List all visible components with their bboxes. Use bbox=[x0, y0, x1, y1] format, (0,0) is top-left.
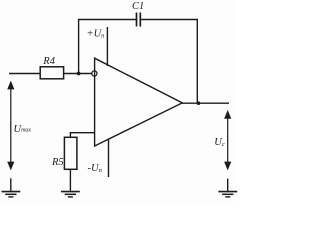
svg-text:-Uп: -Uп bbox=[88, 163, 102, 174]
svg-text:Uc: Uc bbox=[214, 137, 225, 148]
svg-text:Umax: Umax bbox=[14, 124, 32, 135]
svg-text:C1: C1 bbox=[132, 1, 144, 12]
svg-text:R5: R5 bbox=[51, 157, 64, 168]
svg-text:+Uп: +Uп bbox=[87, 29, 105, 40]
svg-text:R4: R4 bbox=[42, 56, 55, 67]
